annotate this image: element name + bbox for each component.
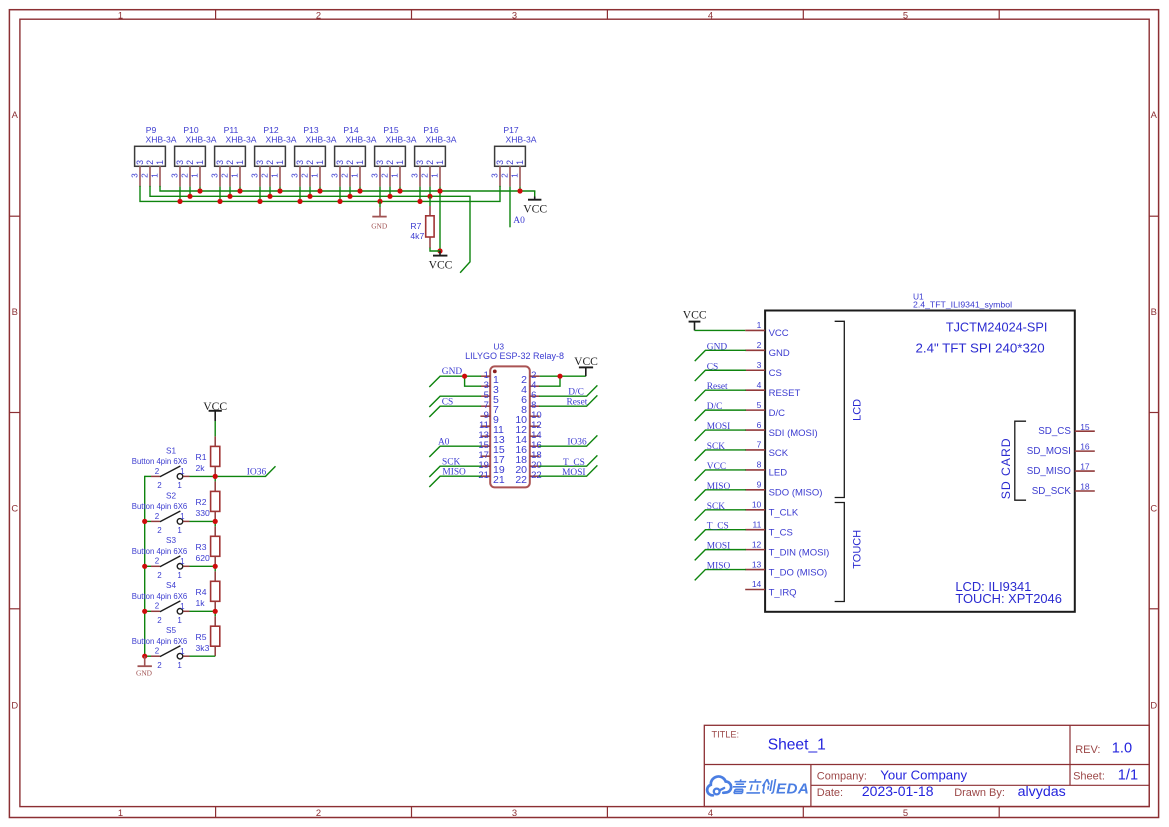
junction P14.1 (357, 188, 362, 193)
svg-text:3: 3 (175, 160, 185, 165)
svg-text:2: 2 (505, 160, 515, 165)
svg-text:S5: S5 (166, 626, 176, 635)
svg-text:T_DO (MISO): T_DO (MISO) (769, 567, 828, 578)
wire node above R4 (214, 566, 216, 571)
U1 pin 15 SD_CS (1038, 422, 1095, 437)
svg-text:A: A (1151, 109, 1158, 120)
junction P11.1 (237, 188, 242, 193)
svg-text:4: 4 (708, 10, 713, 21)
svg-text:3: 3 (130, 173, 140, 178)
wire P12 pin1 drop (279, 187, 281, 191)
resistor R4 1k (196, 571, 220, 611)
svg-text:S3: S3 (166, 536, 176, 545)
svg-text:7: 7 (757, 440, 762, 450)
svg-text:1: 1 (180, 512, 185, 521)
svg-text:1: 1 (275, 160, 285, 165)
svg-text:REV:: REV: (1075, 744, 1100, 756)
svg-text:TITLE:: TITLE: (712, 730, 740, 740)
svg-text:B: B (12, 306, 18, 317)
power VCC at U1 pin1 (683, 309, 707, 331)
svg-text:3: 3 (215, 160, 225, 165)
svg-text:22: 22 (515, 474, 527, 486)
U3 pin 15 (478, 440, 505, 456)
svg-text:3: 3 (757, 360, 762, 370)
U3 pin 11 (479, 420, 504, 436)
svg-text:XHB-3A: XHB-3A (505, 134, 536, 144)
svg-text:1: 1 (355, 160, 365, 165)
junction gnd bus S3 (142, 564, 147, 569)
wire P14 pin1 drop (359, 187, 361, 191)
wire IO36 from R1/R2 node (215, 467, 275, 477)
IC U1 2.4_TFT_ILI9341_symbol (765, 291, 1075, 611)
svg-text:3: 3 (135, 160, 145, 165)
svg-text:Button 4pin 6X6: Button 4pin 6X6 (132, 592, 188, 601)
svg-text:C: C (1150, 503, 1157, 514)
junction P16.1 (437, 188, 442, 193)
connector P14 XHB-3A (330, 125, 377, 186)
svg-text:5: 5 (903, 807, 908, 818)
svg-text:2: 2 (340, 173, 350, 178)
svg-text:4: 4 (708, 807, 713, 818)
svg-text:Sheet:: Sheet: (1073, 771, 1105, 783)
svg-text:2: 2 (345, 160, 355, 165)
svg-text:SD_CS: SD_CS (1038, 426, 1071, 437)
svg-text:MISO: MISO (707, 482, 731, 492)
svg-text:2: 2 (155, 557, 160, 566)
svg-text:1: 1 (315, 160, 325, 165)
resistor R7 4k7 (410, 196, 440, 251)
svg-text:D/C: D/C (769, 408, 786, 419)
svg-text:1: 1 (190, 173, 200, 178)
wire U1 pin 7 net SCK (695, 450, 745, 460)
junction P13.2 (307, 194, 312, 199)
svg-text:3: 3 (330, 173, 340, 178)
U1 pin 16 SD_MOSI (1027, 442, 1095, 457)
U1 pin 7 SCK (745, 440, 789, 459)
svg-text:3: 3 (495, 160, 505, 165)
svg-text:SD_MOSI: SD_MOSI (1027, 446, 1071, 457)
wire P10 pin2 drop (189, 187, 191, 197)
svg-text:2: 2 (265, 160, 275, 165)
svg-text:1: 1 (118, 807, 123, 818)
svg-text:21: 21 (493, 474, 505, 486)
U1 pin 13 T_DO (MISO) (745, 559, 827, 578)
svg-text:2: 2 (757, 340, 762, 350)
wire P14 pin3 drop (339, 187, 341, 202)
svg-text:SD_SCK: SD_SCK (1032, 486, 1072, 497)
svg-text:T_CS: T_CS (707, 522, 729, 532)
U1 pin 2 GND (745, 340, 790, 359)
svg-text:Company:: Company: (817, 771, 867, 783)
svg-text:2k: 2k (196, 463, 206, 473)
svg-text:2: 2 (155, 467, 160, 476)
svg-text:T_IRQ: T_IRQ (769, 587, 797, 598)
junction P11.2 (227, 194, 232, 199)
svg-text:4: 4 (757, 380, 762, 390)
ground GND below S5 (136, 656, 153, 677)
svg-text:VCC: VCC (574, 355, 598, 368)
wire P16 pin2 drop (429, 187, 431, 197)
connector P11 XHB-3A (210, 125, 257, 186)
svg-text:Button 4pin 6X6: Button 4pin 6X6 (132, 502, 188, 511)
svg-text:3: 3 (512, 807, 517, 818)
svg-text:1: 1 (310, 173, 320, 178)
svg-text:IO36: IO36 (247, 467, 267, 477)
wire S5 pin1 to node (190, 655, 216, 657)
U3 pin 7 (480, 400, 499, 416)
wire P16 pin1 drop to VCC/R7 (439, 187, 441, 251)
wire P11 pin3 drop (219, 187, 221, 202)
wire S1 pin1 to node (190, 475, 216, 477)
svg-text:SDO (MISO): SDO (MISO) (769, 488, 823, 499)
svg-text:1: 1 (230, 173, 240, 178)
wire U3 pin16 IO36 (540, 436, 597, 446)
svg-text:2.4_TFT_ILI9341_symbol: 2.4_TFT_ILI9341_symbol (913, 300, 1012, 310)
svg-text:3: 3 (410, 173, 420, 178)
wire P17 pin2 stub net A0 (509, 187, 511, 228)
U3 pin 21 (478, 470, 505, 486)
U3 pin 17 (478, 450, 505, 466)
svg-text:1: 1 (757, 320, 762, 330)
connector P16 XHB-3A (410, 125, 457, 186)
svg-text:1: 1 (180, 467, 185, 476)
svg-text:18: 18 (1080, 482, 1090, 492)
wire U3 pin22 MOSI (540, 466, 597, 476)
svg-text:T_CS: T_CS (563, 458, 585, 468)
wire U3 pin19 SCK (430, 466, 481, 476)
svg-text:VCC: VCC (683, 309, 707, 322)
U1 pin 10 T_CLK (745, 499, 799, 518)
wire U3 pin21 MISO (430, 476, 481, 486)
junction U3 pin1/pin3 (462, 374, 467, 379)
svg-text:XHB-3A: XHB-3A (145, 134, 176, 144)
svg-text:2: 2 (157, 571, 162, 580)
svg-text:1: 1 (435, 160, 445, 165)
junction P10.1 (197, 188, 202, 193)
svg-text:LCD: LCD (852, 399, 864, 421)
svg-text:VCC: VCC (429, 259, 453, 272)
junction P11.3 (217, 199, 222, 204)
svg-text:2: 2 (225, 160, 235, 165)
svg-text:2: 2 (157, 661, 162, 670)
U1 pin 4 RESET (745, 380, 800, 399)
power VCC below R7 (429, 251, 453, 272)
svg-text:VCC: VCC (707, 462, 726, 472)
svg-text:1: 1 (180, 602, 185, 611)
svg-text:XHB-3A: XHB-3A (265, 134, 296, 144)
svg-text:LED: LED (769, 468, 788, 479)
svg-text:1: 1 (155, 160, 165, 165)
svg-text:3: 3 (210, 173, 220, 178)
junction resistor node 3 (213, 564, 218, 569)
svg-text:SCK: SCK (442, 458, 460, 468)
connector P9 XHB-3A (130, 125, 177, 186)
wire U1 pin 2 net GND (695, 350, 745, 360)
svg-text:2: 2 (157, 526, 162, 535)
wire VCC bus (pin1 net) (160, 187, 535, 191)
junction P16.2 (427, 194, 432, 199)
U3 pin 20 (515, 460, 541, 476)
svg-text:R1: R1 (196, 452, 207, 462)
svg-text:3: 3 (250, 173, 260, 178)
svg-text:3: 3 (295, 160, 305, 165)
svg-text:B: B (1151, 306, 1157, 317)
U1 pin 3 CS (745, 360, 782, 379)
svg-text:D/C: D/C (568, 388, 584, 398)
svg-text:Button 4pin 6X6: Button 4pin 6X6 (132, 637, 188, 646)
svg-text:GND: GND (136, 669, 153, 678)
svg-text:1: 1 (150, 173, 160, 178)
svg-text:3: 3 (290, 173, 300, 178)
wire node above R2 (214, 476, 216, 481)
svg-text:XHB-3A: XHB-3A (345, 134, 376, 144)
U1 pin 6 SDI (MOSI) (745, 420, 817, 439)
wire U1 pin 10 net SCK (695, 510, 745, 520)
junction P17.1 (517, 188, 522, 193)
U3 pin 1 (480, 370, 499, 386)
wire U3 pin2 VCC (540, 375, 586, 377)
wire U1 pin 3 net CS (695, 370, 745, 380)
wire U1 pin 4 net Reset (695, 390, 745, 400)
svg-text:2: 2 (145, 160, 155, 165)
wire node above R3 (214, 521, 216, 526)
wire P13 pin2 drop (309, 187, 311, 197)
svg-text:S1: S1 (166, 446, 176, 455)
svg-text:2: 2 (157, 481, 162, 490)
svg-text:MOSI: MOSI (707, 422, 730, 432)
junction P12.1 (277, 188, 282, 193)
junction P14.2 (347, 194, 352, 199)
power VCC at bus right end (523, 191, 547, 215)
wire VCC to R1 (214, 421, 216, 436)
wire S5 pin2 to bus (145, 655, 151, 657)
wire P13 pin3 drop (299, 187, 301, 202)
connector P13 XHB-3A (290, 125, 337, 186)
svg-text:Button 4pin 6X6: Button 4pin 6X6 (132, 457, 188, 466)
svg-text:Button 4pin 6X6: Button 4pin 6X6 (132, 547, 188, 556)
wire S4 pin1 to node (190, 610, 216, 612)
svg-text:LILYGO ESP-32 Relay-8: LILYGO ESP-32 Relay-8 (465, 351, 564, 361)
svg-text:21: 21 (478, 470, 489, 481)
U1 pin 9 SDO (MISO) (745, 480, 822, 499)
wire A0 bus (pin2 net) (150, 187, 470, 273)
svg-text:1: 1 (177, 661, 182, 670)
svg-text:R2: R2 (196, 497, 207, 507)
svg-text:Sheet_1: Sheet_1 (768, 737, 826, 754)
junction resistor node 2 (213, 519, 218, 524)
svg-text:XHB-3A: XHB-3A (305, 134, 336, 144)
wire U3 pin15 A0 (430, 446, 481, 456)
power VCC above R1 (203, 400, 227, 421)
U3 pin 13 (478, 430, 505, 446)
svg-text:3: 3 (170, 173, 180, 178)
U3 pin 4 (521, 380, 539, 396)
junction U3 pin2/pin4 (557, 374, 562, 379)
junction R7 bottom / VCC (437, 248, 442, 253)
wire P11 pin1 drop (239, 187, 241, 191)
wire P15 pin2 drop (389, 187, 391, 197)
junction P10.2 (187, 194, 192, 199)
svg-text:GND: GND (769, 348, 790, 359)
junction gnd bus S2 (142, 519, 147, 524)
junction P13.1 (317, 188, 322, 193)
wire U1 pin 13 net MISO (695, 570, 745, 580)
svg-text:U3: U3 (493, 341, 504, 351)
wire U3 pin6 D/C (540, 386, 597, 396)
svg-text:XHB-3A: XHB-3A (425, 134, 456, 144)
wire U3 pin7 CS (430, 406, 481, 416)
junction P13.3 (297, 199, 302, 204)
svg-text:GND: GND (442, 367, 463, 377)
svg-text:MOSI: MOSI (707, 542, 730, 552)
svg-text:8: 8 (757, 460, 762, 470)
svg-text:EDA: EDA (776, 780, 809, 797)
wire P10 pin1 drop (199, 187, 201, 191)
svg-text:S4: S4 (166, 581, 176, 590)
junction gnd bus S4 (142, 609, 147, 614)
svg-text:3k3: 3k3 (196, 643, 210, 653)
U3 pin 8 (521, 400, 539, 416)
svg-text:GND: GND (371, 221, 388, 230)
svg-text:620: 620 (196, 553, 211, 563)
svg-text:RESET: RESET (769, 388, 801, 399)
junction P12.2 (267, 194, 272, 199)
svg-text:C: C (11, 503, 18, 514)
svg-text:Date:: Date: (817, 787, 843, 799)
wire S2 pin1 to node (190, 520, 216, 522)
connector P12 XHB-3A (250, 125, 297, 186)
wire P15 pin1 drop (399, 187, 401, 191)
switch S3 Button 4pin 6X6 (132, 536, 190, 580)
wire P15 pin3 drop (379, 187, 381, 202)
svg-text:2: 2 (155, 602, 160, 611)
U3 pin 16 (515, 440, 541, 456)
svg-text:1: 1 (510, 173, 520, 178)
svg-text:3: 3 (512, 10, 517, 21)
svg-text:S2: S2 (166, 491, 176, 500)
svg-text:TOUCH: XPT2046: TOUCH: XPT2046 (955, 591, 1062, 606)
svg-text:2.4" TFT SPI 240*320: 2.4" TFT SPI 240*320 (916, 341, 1045, 356)
wire S3 pin2 to bus (145, 565, 151, 567)
svg-text:XHB-3A: XHB-3A (385, 134, 416, 144)
wire P12 pin2 drop (269, 187, 271, 197)
svg-text:2: 2 (316, 10, 321, 21)
svg-text:MISO: MISO (707, 562, 731, 572)
resistor R2 330 (196, 481, 220, 521)
svg-text:SD_MISO: SD_MISO (1027, 466, 1071, 477)
svg-text:XHB-3A: XHB-3A (225, 134, 256, 144)
resistor R5 3k3 (196, 616, 220, 656)
svg-text:1: 1 (177, 481, 182, 490)
svg-text:1: 1 (177, 526, 182, 535)
wire U1 pin 6 net MOSI (695, 430, 745, 440)
svg-text:Reset: Reset (567, 398, 588, 408)
svg-text:2: 2 (305, 160, 315, 165)
svg-text:1: 1 (180, 647, 185, 656)
svg-text:2: 2 (500, 173, 510, 178)
wire node above R5 (214, 611, 216, 616)
switch S5 Button 4pin 6X6 (132, 626, 190, 670)
svg-text:17: 17 (1080, 462, 1090, 472)
wire button common GND bus (144, 476, 146, 656)
wire P16 pin3 drop (419, 187, 421, 202)
title block frame (704, 725, 1149, 806)
resistor R1 2k (196, 436, 220, 476)
bracket TOUCH (pins 10-14) (835, 503, 863, 602)
connector P15 XHB-3A (370, 125, 417, 186)
svg-text:22: 22 (531, 470, 542, 481)
wire U1 pin 9 net MISO (695, 490, 745, 500)
svg-text:alvydas: alvydas (1018, 784, 1066, 800)
svg-text:R4: R4 (196, 587, 207, 597)
svg-text:10: 10 (752, 499, 762, 509)
U3 pin 2 (521, 370, 539, 386)
svg-text:1: 1 (180, 557, 185, 566)
wire U1 pin1 VCC (695, 329, 746, 331)
svg-text:9: 9 (757, 480, 762, 490)
U1 pin 18 SD_SCK (1032, 482, 1095, 497)
svg-text:14: 14 (752, 579, 762, 589)
svg-text:15: 15 (1080, 422, 1090, 432)
svg-text:2: 2 (155, 647, 160, 656)
U1 pin 5 D/C (745, 400, 785, 419)
U1 pin 11 T_CS (745, 519, 793, 538)
svg-text:VCC: VCC (523, 202, 547, 215)
svg-text:CS: CS (707, 362, 718, 372)
svg-text:1: 1 (350, 173, 360, 178)
U3 pin 14 (515, 430, 541, 446)
svg-text:1.0: 1.0 (1112, 741, 1132, 757)
svg-text:4k7: 4k7 (410, 231, 424, 241)
svg-text:CS: CS (769, 368, 782, 379)
power VCC at U3 (574, 355, 598, 376)
wire S3 pin1 to node (190, 565, 216, 567)
svg-text:3: 3 (335, 160, 345, 165)
U3 pin 5 (480, 390, 499, 406)
U3 pin 19 (478, 460, 505, 476)
svg-text:T_CS: T_CS (769, 528, 793, 539)
U3 pin 9 (480, 410, 499, 426)
svg-text:R3: R3 (196, 542, 207, 552)
svg-text:D: D (1150, 699, 1157, 710)
switch S2 Button 4pin 6X6 (132, 491, 190, 535)
U3 pin 22 (515, 470, 541, 486)
resistor R3 620 (196, 526, 220, 566)
switch S4 Button 4pin 6X6 (132, 581, 190, 625)
svg-text:IO36: IO36 (567, 438, 587, 448)
wire S4 pin2 to bus (145, 610, 151, 612)
svg-text:2: 2 (380, 173, 390, 178)
svg-text:2: 2 (157, 616, 162, 625)
wire U3 pin5 (430, 396, 481, 406)
wire P17 pin1 drop (519, 187, 521, 191)
svg-text:A0: A0 (513, 216, 525, 226)
wire U1 pin 12 net MOSI (695, 550, 745, 560)
svg-text:2: 2 (420, 173, 430, 178)
U3 pin 18 (515, 450, 541, 466)
svg-text:11: 11 (752, 519, 761, 529)
connector P10 XHB-3A (170, 125, 217, 186)
U1 pin 17 SD_MISO (1027, 462, 1095, 477)
svg-text:T_CLK: T_CLK (769, 508, 799, 519)
junction P15.2 (387, 194, 392, 199)
svg-text:GND: GND (707, 342, 728, 352)
svg-text:1: 1 (515, 160, 525, 165)
wire S1 pin2 to bus (145, 475, 151, 477)
U1 pin 14 T_IRQ (745, 579, 796, 598)
svg-text:A: A (12, 109, 19, 120)
U1 pin 8 LED (745, 460, 787, 479)
